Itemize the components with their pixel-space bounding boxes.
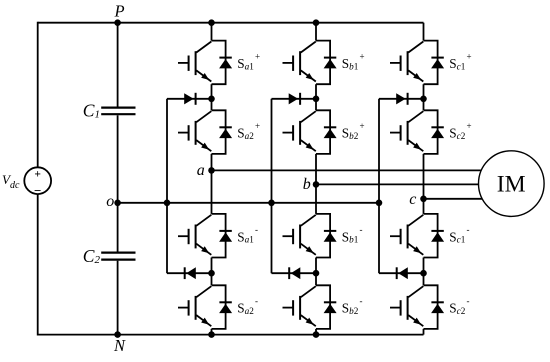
transistor IGBT Sb1+ — [283, 42, 316, 82]
motor IM — [479, 151, 545, 217]
diode antiparallel Sc2+ — [431, 127, 444, 138]
diode clamp upper leg a — [167, 93, 212, 105]
node o-line junction leg b — [268, 200, 275, 207]
node c — [420, 196, 427, 203]
wire branch loop Sa1+ — [212, 41, 226, 85]
source Vdc — [24, 167, 51, 198]
wire branch loop Sb1- — [316, 214, 330, 258]
wire branch loop Sc1- — [424, 214, 438, 258]
transistor IGBT Sb1- — [283, 215, 316, 255]
svg-text:c: c — [409, 191, 416, 208]
svg-text:+: + — [34, 169, 41, 181]
capacitor C1 — [101, 108, 135, 115]
node N — [114, 331, 121, 338]
transistor IGBT Sc2- — [390, 286, 423, 326]
node a — [208, 167, 215, 174]
svg-text:P: P — [114, 2, 125, 21]
node clamp lower junction leg c — [420, 270, 427, 277]
wire left rail upper — [37, 22, 39, 168]
wire branch loop Sb2+ — [316, 110, 330, 154]
wire clamp vertical leg b — [271, 99, 273, 273]
wire leg a bottom drop — [211, 329, 213, 335]
wire branch loop Sa2- — [212, 285, 226, 329]
wire branch loop Sa1- — [212, 214, 226, 258]
svg-text:a: a — [197, 162, 205, 179]
wire branch loop Sb1+ — [316, 41, 330, 85]
wire leg a between Sa1+ and Sa2+ — [211, 84, 213, 110]
transistor IGBT Sa2+ — [178, 111, 211, 151]
wire leg c between Sc1- and Sc2- — [423, 258, 425, 286]
wire leg a between Sa1- and Sa2- — [211, 258, 213, 286]
transistor IGBT Sa1+ — [178, 42, 211, 82]
wire branch loop Sc1+ — [424, 41, 438, 85]
capacitor C2 — [101, 253, 135, 260]
svg-text:b: b — [303, 176, 311, 193]
diode antiparallel Sc2- — [431, 302, 444, 313]
node top bus leg b — [313, 19, 320, 26]
wire leg b bottom drop — [315, 329, 317, 335]
node o-line junction leg a — [164, 200, 171, 207]
wire mid rail P to C1 — [117, 23, 119, 107]
wire mid rail C2 to N — [117, 261, 119, 335]
node bottom bus leg b — [313, 331, 320, 338]
node o-line junction leg c — [376, 200, 383, 207]
wire clamp vertical leg c — [378, 99, 380, 273]
wire leg c bottom drop — [423, 329, 425, 335]
wire leg a top drop — [211, 23, 213, 41]
svg-text:IM: IM — [497, 171, 526, 197]
diode clamp lower leg a — [167, 267, 212, 279]
wire bottom bus N — [38, 334, 424, 336]
transistor IGBT Sc1- — [390, 215, 423, 255]
node clamp upper junction leg a — [208, 96, 215, 103]
node clamp upper junction leg b — [313, 96, 320, 103]
wire neutral o-line — [118, 202, 379, 204]
svg-text:o: o — [106, 193, 114, 210]
diode antiparallel Sa2+ — [219, 127, 232, 138]
diode clamp lower leg b — [272, 267, 317, 279]
svg-text:N: N — [113, 336, 126, 355]
diode antiparallel Sb1+ — [324, 58, 337, 69]
diode antiparallel Sa2- — [219, 302, 232, 313]
wire phase a to motor — [212, 169, 485, 171]
diode antiparallel Sc1- — [431, 231, 444, 242]
diode antiparallel Sc1+ — [431, 58, 444, 69]
wire mid rail o to C2 — [117, 203, 119, 252]
wire left rail lower — [37, 194, 39, 336]
wire leg c between Sc1+ and Sc2+ — [423, 84, 425, 110]
wire branch loop Sc2- — [424, 285, 438, 329]
wire leg c phase segment — [423, 154, 425, 214]
wire mid rail C1 to o — [117, 115, 119, 203]
svg-text:−: − — [34, 183, 41, 198]
transistor IGBT Sa1- — [178, 215, 211, 255]
node b — [313, 181, 320, 188]
wire clamp vertical leg a — [166, 99, 168, 273]
wire branch loop Sc2+ — [424, 110, 438, 154]
diode antiparallel Sa1- — [219, 231, 232, 242]
transistor IGBT Sc2+ — [390, 111, 423, 151]
node top bus leg a — [208, 19, 215, 26]
diode clamp upper leg b — [272, 93, 317, 105]
node P — [114, 19, 121, 26]
node clamp lower junction leg a — [208, 270, 215, 277]
diode antiparallel Sa1+ — [219, 58, 232, 69]
wire phase b to motor — [316, 183, 480, 185]
diode antiparallel Sb1- — [324, 231, 337, 242]
diode antiparallel Sb2- — [324, 302, 337, 313]
wire leg b between Sb1+ and Sb2+ — [315, 84, 317, 110]
diode clamp lower leg c — [379, 267, 424, 279]
wire leg c top drop — [423, 23, 425, 41]
wire top bus P — [38, 22, 424, 24]
wire branch loop Sb2- — [316, 285, 330, 329]
diode clamp upper leg c — [379, 93, 424, 105]
node clamp lower junction leg b — [313, 270, 320, 277]
wire leg b between Sb1- and Sb2- — [315, 258, 317, 286]
transistor IGBT Sb2+ — [283, 111, 316, 151]
wire phase c to motor — [424, 198, 485, 200]
wire leg b top drop — [315, 23, 317, 41]
wire leg a phase segment — [211, 154, 213, 214]
diode antiparallel Sb2+ — [324, 127, 337, 138]
wire leg b phase segment — [315, 154, 317, 214]
node bottom bus leg a — [208, 331, 215, 338]
node clamp upper junction leg c — [420, 96, 427, 103]
wire branch loop Sa2+ — [212, 110, 226, 154]
transistor IGBT Sb2- — [283, 286, 316, 326]
transistor IGBT Sc1+ — [390, 42, 423, 82]
node o — [114, 200, 121, 207]
transistor IGBT Sa2- — [178, 286, 211, 326]
